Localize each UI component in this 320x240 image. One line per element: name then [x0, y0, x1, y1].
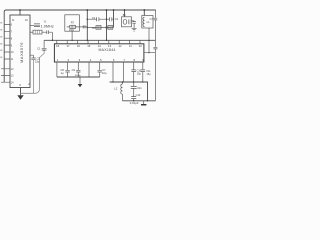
- svg-text:1000p: 1000p: [75, 75, 82, 77]
- svg-text:8: 8: [11, 37, 13, 40]
- svg-text:10: 10: [139, 44, 143, 48]
- svg-text:20: 20: [25, 19, 28, 22]
- svg-text:IN: IN: [0, 57, 3, 59]
- svg-text:C9: C9: [72, 68, 76, 72]
- svg-text:1: 1: [57, 58, 59, 62]
- svg-text:11: 11: [11, 58, 14, 61]
- svg-text:11: 11: [12, 19, 15, 22]
- svg-text:15μ: 15μ: [147, 73, 152, 76]
- svg-text:C4: C4: [115, 17, 119, 21]
- svg-text:C11: C11: [137, 86, 142, 90]
- svg-text:IN: IN: [0, 36, 3, 38]
- svg-text:15: 15: [87, 44, 91, 48]
- svg-text:16: 16: [77, 44, 81, 48]
- svg-text:8: 8: [20, 84, 22, 87]
- svg-text:6: 6: [113, 58, 115, 62]
- svg-text:R4: R4: [105, 26, 109, 30]
- svg-text:IN: IN: [0, 30, 3, 32]
- svg-text:9: 9: [11, 44, 13, 47]
- svg-text:11: 11: [129, 44, 132, 48]
- svg-text:22p: 22p: [35, 60, 40, 64]
- svg-text:12: 12: [11, 68, 14, 71]
- svg-text:6: 6: [11, 24, 13, 27]
- svg-text:17: 17: [66, 44, 70, 48]
- svg-text:C1: C1: [37, 47, 41, 51]
- svg-text:R3: R3: [92, 26, 96, 30]
- svg-text:R7: R7: [71, 21, 75, 25]
- svg-text:Y1: Y1: [44, 20, 48, 23]
- svg-text:7: 7: [123, 58, 125, 62]
- svg-text:10: 10: [11, 51, 14, 54]
- svg-text:C3: C3: [92, 16, 96, 20]
- svg-text:3: 3: [79, 58, 81, 62]
- svg-text:8: 8: [134, 58, 136, 62]
- svg-text:12: 12: [118, 44, 122, 48]
- svg-text:MAX8576: MAX8576: [19, 42, 24, 63]
- svg-text:L2: L2: [114, 86, 118, 90]
- svg-text:1μ: 1μ: [61, 71, 64, 75]
- svg-text:IN: IN: [0, 50, 3, 52]
- svg-text:15μ: 15μ: [137, 73, 142, 76]
- svg-text:IN: IN: [0, 43, 3, 45]
- svg-text:IN: IN: [0, 23, 3, 25]
- svg-text:18: 18: [56, 44, 60, 48]
- svg-text:7: 7: [11, 31, 13, 34]
- svg-text:C12: C12: [136, 93, 141, 97]
- svg-text:4: 4: [90, 58, 92, 62]
- svg-text:1.0MHz: 1.0MHz: [41, 25, 54, 29]
- svg-text:MAX1844: MAX1844: [99, 48, 116, 52]
- svg-text:14: 14: [11, 81, 14, 84]
- svg-text:0.01μF: 0.01μF: [130, 101, 139, 105]
- svg-text:2: 2: [68, 58, 70, 62]
- svg-text:13: 13: [11, 75, 14, 78]
- svg-text:10μ: 10μ: [102, 71, 107, 75]
- svg-text:5: 5: [100, 58, 102, 62]
